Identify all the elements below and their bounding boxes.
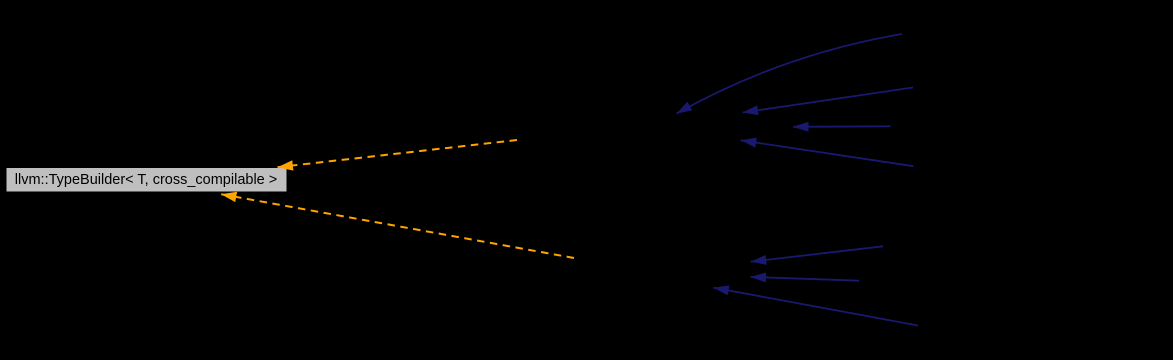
inheritance arrow 3 (horizontal) — [793, 125, 891, 128]
inheritance arrow 1 (curved, to hidden node) — [676, 34, 902, 114]
template relation arrow (orange dashed, upper) — [278, 140, 518, 167]
svg-text:llvm::TypeBuilder< T, cross_co: llvm::TypeBuilder< T, cross_compilable > — [15, 172, 277, 188]
inheritance arrow 4 — [741, 140, 914, 166]
inheritance arrow 6 — [751, 277, 860, 281]
inheritance arrow 2 — [743, 88, 913, 113]
template relation arrow (orange dashed, lower) — [221, 194, 574, 258]
inheritance arrow 5 — [751, 246, 883, 261]
node: llvm::TypeBuilder< T, cross_compilable > (grey box) — [6, 168, 287, 193]
inheritance arrow 7 — [713, 288, 918, 326]
